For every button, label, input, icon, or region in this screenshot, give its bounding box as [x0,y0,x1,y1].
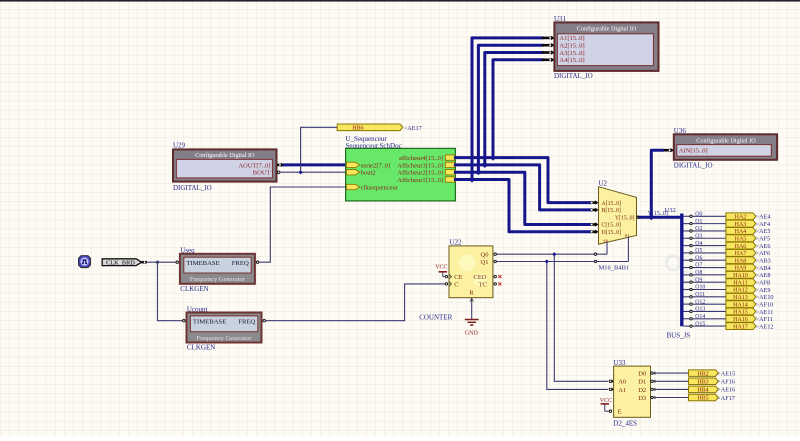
pin A4 stub [542,58,555,62]
net label AE15 [717,370,735,377]
svg-text:U2: U2 [599,180,608,188]
junction Q0 [552,252,556,256]
svg-text:M16_B4B1: M16_B4B1 [599,264,630,271]
ground GND [465,320,479,337]
svg-text:D2_4ES: D2_4ES [613,419,637,427]
bus entry O4 [684,241,703,247]
pin A1 stub [542,36,555,40]
bus mux Y output to BUS_JS [639,216,681,219]
bus entry O13 [684,307,706,313]
port HA10 [726,271,756,279]
svg-text:>AB4: >AB4 [756,265,771,272]
pin A2 stub [542,43,555,47]
bus entry O9 [684,277,703,283]
svg-text:>AE12: >AE12 [756,323,774,330]
net label Y[15..0] [648,211,668,217]
port HA15 [726,308,756,316]
net label AE16 [717,387,735,394]
counter U22 [449,238,493,297]
svg-text:HA14: HA14 [733,302,748,308]
mux pin S1 [594,237,628,263]
svg-text:Afficheur2[15..0]: Afficheur2[15..0] [397,170,443,177]
svg-text:>AF5: >AF5 [756,236,771,243]
net label AE17 [404,125,422,132]
svg-text:C[15..0]: C[15..0] [602,223,621,229]
svg-text:>AF17: >AF17 [717,395,735,402]
bus entry O0 [684,212,703,218]
svg-text:D3: D3 [638,395,646,402]
pin A0 [609,379,613,383]
svg-text:CLKGEN: CLKGEN [180,285,208,293]
svg-text:>AE5: >AE5 [756,228,771,235]
port HA12 [726,286,756,294]
svg-text:CLKGEN: CLKGEN [187,344,215,352]
port CLK_BRD pin stub [142,261,147,264]
svg-text:HB6: HB6 [352,126,363,132]
wire O8 to port HA10 [692,274,726,276]
pin AOUT[7..0] stub [277,163,284,167]
pin D2 [651,388,655,392]
svg-text:>AB3: >AB3 [756,258,771,265]
bus entry O3 [684,233,703,239]
svg-text:A4[15..0]: A4[15..0] [559,57,584,64]
wire O0 to port HA2 [692,215,726,217]
wire Useq FREQ to clksequenceur [259,187,346,262]
port HA9 [726,264,756,272]
bus Afficheur1 to mux D [455,180,590,232]
IC U36 Configurable Digital IO [674,127,777,169]
mux pin Y stub [637,216,639,218]
svg-text:clksequenceur: clksequenceur [361,184,399,191]
sheet entry afficheur4[15..0] [399,155,455,162]
pin CEO [494,275,496,277]
bus branch to U31 A1 [472,38,542,180]
net label AF5 [756,236,771,243]
wire Q1 to mux S1 and U33 A1 [496,262,608,390]
pin E [609,410,611,412]
pin Q0 [494,253,496,255]
svg-text:HB5: HB5 [697,396,708,402]
bus entry O12 [684,299,706,305]
wire O12 to port HA14 [692,303,726,305]
clock source icon [79,256,91,268]
svg-text:Y[15..0]: Y[15..0] [615,215,635,221]
label COUNTER [419,313,452,321]
bus entry O11 [684,292,706,298]
bus entry O5 [684,248,703,254]
Ucount FREQ pin [263,320,265,322]
svg-text:>AE6: >AE6 [756,243,771,250]
sheet entry Afficheur2[15..0] [397,170,455,177]
svg-text:CEO: CEO [474,274,487,281]
svg-text:AOUT[7..0]: AOUT[7..0] [238,163,270,170]
net label AE6 [756,243,771,250]
svg-text:Q1: Q1 [481,259,489,266]
bus branch to U31 A4 [493,60,542,158]
net label AF16 [717,379,735,386]
mux pin S0 [594,242,607,255]
net label AE5 [756,228,771,235]
svg-text:B[15..0]: B[15..0] [602,208,621,214]
svg-text:E: E [618,409,622,416]
wire O1 to port HA3 [692,223,726,225]
wire O11 to port HA13 [692,296,726,298]
wire D0 to port HB2 [653,372,688,374]
port HA11 [726,279,756,287]
svg-text:>AF16: >AF16 [717,379,735,386]
svg-text:Configurable Digital IO: Configurable Digital IO [577,26,637,33]
mux pin D stub [591,230,599,234]
net label AF17 [717,395,735,402]
svg-text:HA16: HA16 [733,317,748,323]
pin Q1 [494,260,496,262]
bus entry O14 [684,314,706,320]
wire O4 to port HA6 [692,245,726,247]
bus branch to U31 A3 [485,53,542,165]
wire CLK_BRD to Useq [147,261,176,263]
bus joiner U32 BUS_JS [665,207,691,339]
svg-text:HA12: HA12 [733,288,748,294]
wire O3 to port HA5 [692,237,726,239]
svg-text:HA9: HA9 [735,266,747,272]
pin CE [445,275,451,279]
wire BOUT to bout2 [280,171,346,173]
svg-text:HA15: HA15 [733,310,748,316]
svg-text:BOUT: BOUT [253,170,271,177]
sheet top border [0,0,800,2]
port HA6 [726,242,756,250]
svg-text:TIMEBASE: TIMEBASE [186,260,219,267]
bus entry O10 [684,285,706,291]
svg-text:HB3: HB3 [697,380,708,386]
svg-text:AIN[15..0]: AIN[15..0] [679,148,708,155]
svg-text:>AE15: >AE15 [717,370,735,377]
svg-text:FREQ: FREQ [238,319,255,326]
bus entry O2 [684,226,703,232]
IC U29 Configurable Digital IO [173,142,277,193]
svg-text:A1[15..0]: A1[15..0] [559,35,584,42]
svg-text:Frequency Generator: Frequency Generator [190,276,246,283]
port HB6 [337,124,403,132]
svg-text:CE: CE [454,274,462,281]
mux pin B stub [591,208,599,212]
wire O9 to port HA11 [692,281,726,283]
bus entry O8 [684,270,703,276]
svg-text:>AE8: >AE8 [756,272,771,279]
bus Afficheur2 to mux C [455,172,590,224]
wire CLK branch to Ucount [158,262,183,321]
sheet entry Afficheur1[15..0] [397,177,455,184]
svg-text:A[15..0]: A[15..0] [602,201,622,207]
wire bout2 net to port HB6 [301,127,338,172]
net label AE12 [756,323,774,330]
net label AE9 [756,287,771,294]
svg-text:>AE17: >AE17 [404,125,422,132]
svg-text:>AF4: >AF4 [756,221,771,228]
decoder U33 D2_4ES [613,359,650,427]
svg-text:R: R [469,290,474,297]
svg-text:>AE4: >AE4 [756,214,771,221]
svg-text:Afficheur3[15..0]: Afficheur3[15..0] [397,162,443,169]
svg-text:serie2[7..0]: serie2[7..0] [361,162,391,169]
svg-text:S1: S1 [625,233,631,238]
bus entry O6 [684,255,703,261]
Useq FREQ pin [256,261,258,263]
svg-text:TIMEBASE: TIMEBASE [193,319,226,326]
wire D2 to port HB4 [653,388,688,390]
IC U31 Configurable Digital IO [554,15,659,80]
svg-text:Configurable Digital IO: Configurable Digital IO [696,137,756,144]
svg-text:HA4: HA4 [735,229,747,235]
svg-text:GND: GND [465,331,479,337]
frequency generator Ucount CLKGEN [187,305,262,351]
Useq TIMEBASE pin [176,261,178,263]
svg-text:>AF11: >AF11 [756,316,773,323]
wire Ucount FREQ to U22 C [265,284,445,321]
bus Afficheur3 to mux B [455,165,590,210]
svg-text:>AF6: >AF6 [756,250,771,257]
svg-text:CLK_BRD: CLK_BRD [106,259,135,266]
port HA4 [726,227,756,235]
junction Q1 [545,259,549,263]
svg-text:Frequency Generator: Frequency Generator [196,335,252,342]
port HB5 [689,394,719,401]
pin D3 [651,396,655,400]
pin A1 [609,388,613,392]
wire O2 to port HA4 [692,230,726,232]
port HA7 [726,249,756,257]
svg-text:Afficheur1[15..0]: Afficheur1[15..0] [397,177,443,184]
svg-text:DIGITAL_IO: DIGITAL_IO [173,184,212,192]
sheet entry bout2 [346,170,375,177]
svg-text:HA13: HA13 [733,295,748,301]
VCC supply for U33 [600,398,612,411]
wire O6 to port HA8 [692,259,726,261]
svg-text:bout2: bout2 [361,170,376,177]
mux pin A stub [591,200,599,204]
bus junction A1 [469,176,475,182]
svg-text:U32: U32 [665,207,676,214]
svg-text:Q0: Q0 [481,252,489,259]
gear watermark [666,256,694,283]
svg-text:S0: S0 [603,239,609,244]
mux pin C stub [591,222,599,226]
port HA17 [726,323,756,331]
net label AB4 [756,265,771,272]
svg-text:D2: D2 [638,387,646,394]
bus junction A3 [482,162,488,168]
svg-text:A3[15..0]: A3[15..0] [559,50,584,57]
port HA8 [726,257,756,265]
VCC supply for U22 [435,264,447,276]
net label AF4 [756,221,771,228]
bus junction A2 [475,169,481,175]
bus entry O15 [684,321,706,327]
wire O5 to port HA7 [692,252,726,254]
svg-text:>AF8: >AF8 [756,279,771,286]
svg-text:A1: A1 [618,387,626,394]
no-ERC TC [498,282,501,285]
sheet symbol U_Sequenceur [346,135,456,201]
net label AF11 [756,316,773,323]
wire D3 to port HB5 [653,397,688,399]
bus branch to U31 A2 [478,45,541,172]
svg-text:afficheur4[15..0]: afficheur4[15..0] [399,155,443,162]
net label AF10 [756,301,774,308]
svg-text:HA6: HA6 [735,244,747,250]
svg-text:DIGITAL_IO: DIGITAL_IO [674,161,713,169]
svg-text:HA5: HA5 [735,236,747,242]
frequency generator Useq CLKGEN [180,247,255,293]
svg-text:HA17: HA17 [733,324,748,330]
junction on BOUT net [298,170,302,174]
port HA2 [726,213,756,221]
svg-text:C: C [454,281,458,288]
svg-text:>AE10: >AE10 [756,294,774,301]
svg-text:BUS_JS: BUS_JS [667,331,691,339]
svg-text:HB2: HB2 [697,371,708,377]
bus entry O1 [684,219,703,225]
net label AE8 [756,272,771,279]
pin A3 stub [542,50,555,54]
port HB2 [689,370,719,377]
pin BOUT stub [277,171,280,174]
pin R wire [470,298,474,320]
net label AB3 [756,258,771,265]
svg-text:HA7: HA7 [735,251,747,257]
svg-text:HA10: HA10 [733,273,748,279]
port HB4 [689,386,719,393]
bus branch to U36 AIN [651,150,662,217]
svg-text:U29: U29 [173,142,186,150]
port HA13 [726,293,756,301]
svg-text:A0: A0 [618,379,626,386]
pin AIN stub [662,148,674,152]
port CLK_BRD [102,259,142,267]
pin TC [494,283,496,285]
port HA16 [726,315,756,323]
svg-text:>AE11: >AE11 [756,309,774,316]
svg-text:D1: D1 [638,379,646,386]
Ucount TIMEBASE pin [183,320,185,322]
net label AE10 [756,294,774,301]
svg-text:A2[15..0]: A2[15..0] [559,43,584,50]
svg-text:D0: D0 [638,371,646,378]
wire O14 to port HA16 [692,318,726,320]
svg-text:VCC: VCC [435,264,447,270]
bus afficheur4 to mux A [455,158,590,203]
sheet entry clksequenceur [346,184,398,191]
svg-text:FREQ: FREQ [232,260,249,267]
svg-text:U22: U22 [450,238,463,246]
svg-text:>AF10: >AF10 [756,301,774,308]
port HA5 [726,235,756,243]
pin D0 [651,371,655,375]
svg-text:TC: TC [479,281,487,288]
svg-text:>AE9: >AE9 [756,287,771,294]
bus entry O7 [684,263,703,269]
bus AOUT to serie2 [284,163,345,166]
net label AF8 [756,279,771,286]
multiplexer U2 M16_B4B1 [599,180,637,272]
svg-text:Configurable Digital IO: Configurable Digital IO [195,152,255,159]
bus junction Y/AIN [648,214,654,220]
net label AF6 [756,250,771,257]
wire Q0 to mux S0 and U33 A0 [496,254,608,381]
wire O7 to port HA9 [692,267,726,269]
svg-text:HA11: HA11 [733,280,747,286]
net label AE11 [756,309,774,316]
no-ERC CEO [498,275,501,278]
wire D1 to port HB3 [653,380,688,382]
sheet entry Afficheur3[15..0] [397,162,455,169]
svg-text:>AE16: >AE16 [717,387,735,394]
svg-text:HA2: HA2 [735,215,747,221]
port HA14 [726,301,756,309]
svg-text:HA3: HA3 [735,222,747,228]
svg-text:HA8: HA8 [735,258,747,264]
bus junction A4 [490,154,496,160]
wire O15 to port HA17 [692,325,726,327]
sheet entry serie2[7..0] [346,162,390,169]
svg-text:DIGITAL_IO: DIGITAL_IO [554,72,593,80]
port HB3 [689,378,719,385]
wire O13 to port HA15 [692,310,726,312]
port HA3 [726,220,756,228]
svg-text:HB4: HB4 [697,388,708,394]
svg-text:D[15..0]: D[15..0] [602,230,622,236]
pin C clock [445,282,451,286]
pin D1 [651,379,655,383]
svg-text:COUNTER: COUNTER [419,313,452,321]
junction CLK [155,260,159,264]
wire O10 to port HA12 [692,289,726,291]
net label AE4 [756,214,771,221]
